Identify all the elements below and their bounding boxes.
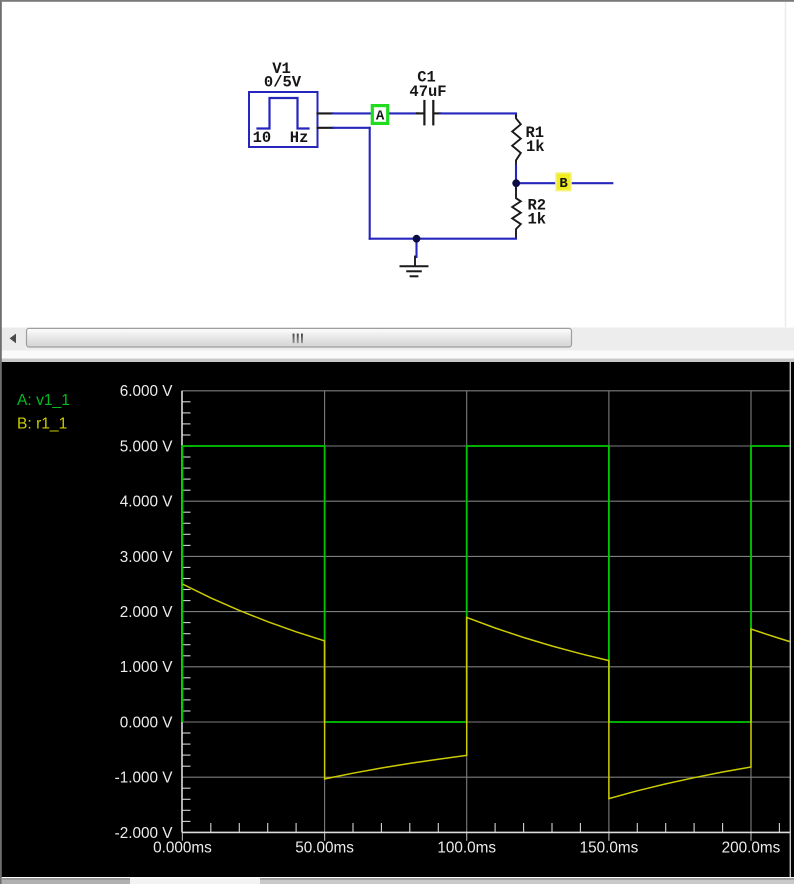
svg-text:1.000 V: 1.000 V [120, 659, 174, 676]
wire bottom rail [370, 238, 516, 240]
x axis minor ticks [211, 823, 780, 832]
bottom mini scrollbar strip [0, 877, 794, 884]
svg-text:0.000 V: 0.000 V [120, 714, 174, 731]
wire ground stub [415, 239, 417, 257]
svg-text:100.0ms: 100.0ms [437, 839, 496, 856]
svg-text:47uF: 47uF [409, 83, 446, 101]
svg-text:6.000 V: 6.000 V [120, 383, 174, 400]
junction dot at ground rail [413, 235, 421, 243]
plot pane right border [789, 362, 791, 877]
window top border [0, 0, 794, 2]
svg-text:0.000ms: 0.000ms [153, 839, 212, 856]
wire node B right end [571, 182, 612, 184]
svg-text:B: B [559, 176, 568, 192]
svg-text:5.000 V: 5.000 V [120, 438, 174, 455]
svg-text:150.0ms: 150.0ms [580, 839, 639, 856]
plot grid vertical lines [325, 391, 751, 833]
svg-text:-1.000 V: -1.000 V [115, 770, 174, 787]
ground symbol [401, 257, 428, 277]
svg-text:3.000 V: 3.000 V [120, 549, 174, 566]
svg-text:10 Hz: 10 Hz [253, 129, 309, 147]
y axis labels [115, 383, 174, 842]
wire pin to node A [333, 112, 372, 114]
node A probe box [372, 106, 387, 125]
scrollbar grip [293, 334, 295, 344]
V1 pin bottom [318, 127, 334, 129]
wire left vertical [369, 128, 371, 239]
plot grid horizontal lines [182, 391, 790, 777]
wire C1 to corner to R1 [441, 113, 517, 116]
scrollbar left arrow button [2, 328, 25, 350]
V1 pin top [318, 112, 334, 114]
svg-text:A: A [376, 108, 385, 124]
capacitor C1 plates [423, 101, 425, 124]
svg-text:B: r1_1: B: r1_1 [17, 416, 67, 433]
wire R1 to junction [515, 166, 517, 184]
trace A (green, v1_1 square wave) [182, 446, 790, 722]
svg-text:0/5V: 0/5V [264, 73, 302, 91]
wire V1 bottom to left vertical [333, 127, 370, 129]
svg-text:4.000 V: 4.000 V [120, 494, 174, 511]
capacitor C1 leads [417, 112, 423, 114]
svg-text:2.000 V: 2.000 V [120, 604, 174, 621]
x axis labels [153, 839, 781, 856]
schematic wires and components [249, 92, 612, 276]
horizontal scrollbar [0, 328, 794, 363]
svg-text:50.00ms: 50.00ms [295, 839, 354, 856]
V1 square-wave glyph [258, 98, 309, 129]
trace B (yellow, node B voltage) [182, 584, 790, 799]
y axis line [181, 391, 183, 833]
svg-text:1k: 1k [528, 211, 547, 229]
svg-text:1k: 1k [526, 138, 545, 156]
window left border [0, 0, 2, 884]
junction dot at B [512, 179, 520, 187]
wire node A to C1 [388, 112, 418, 114]
svg-text:A: v1_1: A: v1_1 [17, 392, 70, 409]
x axis major ticks below axis [182, 832, 751, 840]
wire junction to node B [516, 182, 556, 184]
plot pane background [0, 362, 794, 878]
node B probe box [556, 173, 571, 192]
wire junction to R2 [515, 183, 517, 189]
source V1 box [249, 92, 318, 147]
resistor R1 [512, 116, 521, 167]
x axis line [182, 831, 790, 833]
svg-text:200.0ms: 200.0ms [722, 839, 781, 856]
scrollbar thumb [27, 328, 572, 347]
resistor R2 [512, 188, 521, 237]
y axis minor ticks [182, 402, 191, 822]
schematic pane background [0, 0, 794, 328]
schematic pane right faint border [785, 2, 787, 327]
